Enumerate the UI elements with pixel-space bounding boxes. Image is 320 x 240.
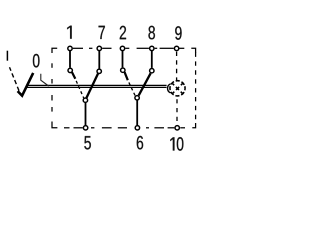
label 5 — [84, 136, 91, 149]
housing outline top rail — [52, 48, 196, 53]
wire leg terminal 8 — [151, 51, 153, 68]
label 10 — [170, 137, 183, 151]
wire leg terminal 7 — [98, 51, 100, 69]
lever alternate position (dashed) — [10, 67, 20, 91]
dashed blade 1-5 (alternate) — [75, 78, 84, 98]
label 2 — [120, 26, 126, 39]
housing outline right edge — [195, 53, 197, 124]
indicator lamp L (dashed circle) — [168, 79, 187, 98]
actuator bar (double line) — [26, 85, 166, 87]
label 8 — [148, 26, 154, 40]
terminal 8 — [150, 46, 154, 50]
dashed wire 9 to lamp — [176, 52, 178, 81]
terminal 2 — [120, 46, 124, 50]
label 7 — [99, 26, 105, 39]
switch lever (position 0, solid) — [18, 73, 34, 96]
contact node below 1 — [68, 68, 72, 72]
housing outline bottom rail — [64, 123, 196, 128]
indicator lamp X filament — [173, 84, 183, 94]
terminal 6 — [135, 126, 139, 130]
label 9 — [175, 26, 181, 40]
housing outline left edge — [52, 63, 57, 128]
label 1 — [67, 26, 72, 39]
contact stub terminal 2 — [125, 72, 128, 80]
position marker I — [6, 51, 8, 61]
contact node below 8 — [150, 69, 154, 73]
contact node below 7 — [97, 69, 101, 73]
contact blade 8-6 (closed) — [139, 73, 151, 95]
bar end contact shoe — [168, 84, 171, 93]
terminal 10 — [175, 126, 179, 130]
contact blade 7-5 (closed) — [87, 74, 99, 98]
terminal 9 — [174, 46, 178, 50]
contact node below 2 — [121, 68, 125, 72]
contact node above 5 — [83, 98, 87, 102]
contact stub terminal 1 — [72, 72, 75, 79]
dashed blade 2-6 (alternate) — [128, 80, 135, 96]
terminal 1 — [68, 46, 72, 50]
contact node above 6 — [135, 96, 139, 100]
dashed wire lamp to 10 — [176, 99, 178, 125]
wire contact to terminal 5 — [85, 103, 87, 125]
wire leg terminal 1 — [69, 51, 71, 68]
wire leg terminal 2 — [122, 51, 124, 68]
terminal 5 — [83, 126, 87, 130]
terminal 7 — [97, 46, 101, 50]
detent pawl — [41, 74, 49, 86]
label 6 — [137, 136, 143, 150]
label 0 — [33, 54, 40, 68]
wire contact to terminal 6 — [136, 100, 138, 125]
